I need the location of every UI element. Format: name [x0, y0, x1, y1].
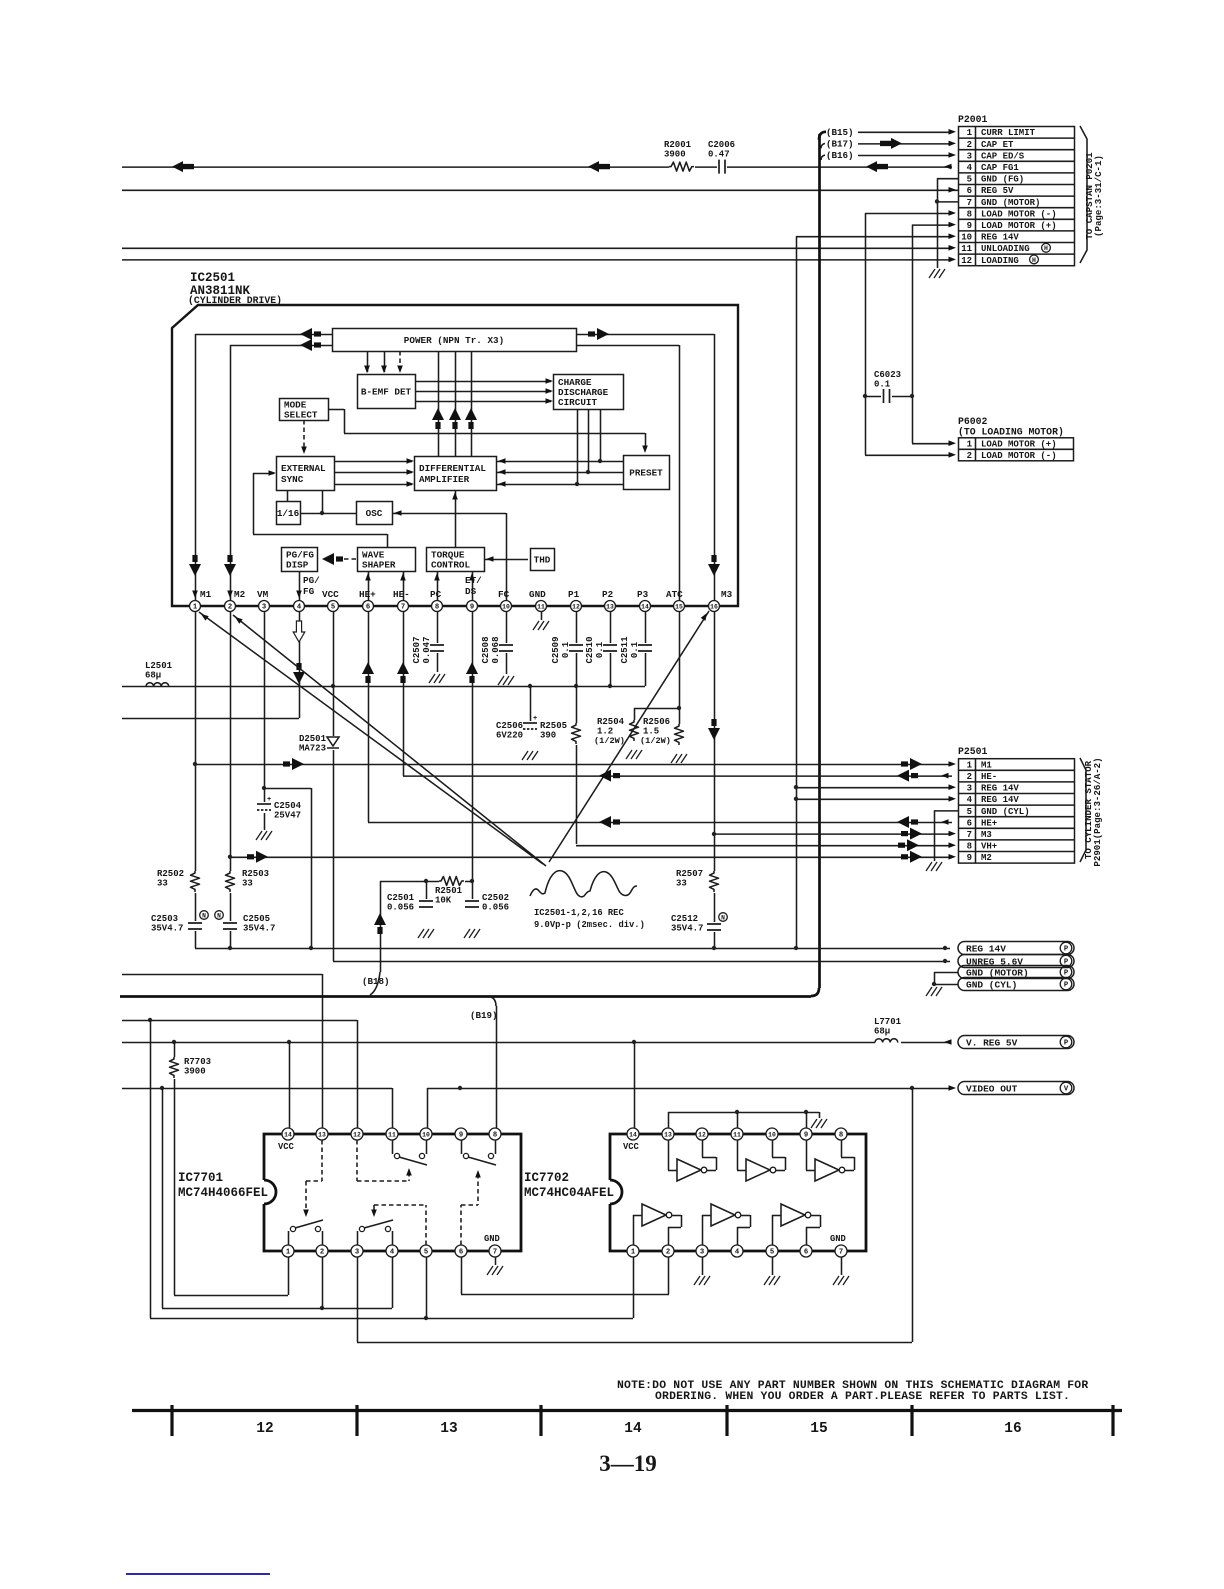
svg-text:LOAD MOTOR (+): LOAD MOTOR (+) — [981, 221, 1057, 231]
svg-text:7: 7 — [967, 830, 972, 840]
svg-text:P: P — [1064, 946, 1069, 954]
svg-text:CAP ET: CAP ET — [981, 140, 1014, 150]
svg-text:IC2501: IC2501 — [190, 271, 235, 285]
svg-text:6: 6 — [804, 1248, 808, 1256]
svg-text:3: 3 — [967, 151, 972, 161]
svg-text:11: 11 — [733, 1131, 741, 1138]
svg-text:VCC: VCC — [278, 1142, 295, 1152]
svg-text:SHAPER: SHAPER — [362, 559, 396, 570]
svg-text:1: 1 — [631, 1248, 636, 1256]
svg-text:P: P — [1064, 982, 1069, 990]
svg-text:(CYLINDER DRIVE): (CYLINDER DRIVE) — [188, 295, 282, 306]
svg-text:(1/2W): (1/2W) — [640, 736, 671, 746]
svg-text:R2505: R2505 — [540, 721, 567, 731]
svg-text:4: 4 — [967, 163, 973, 173]
svg-text:GND (CYL): GND (CYL) — [981, 807, 1030, 817]
svg-text:6: 6 — [967, 186, 972, 196]
svg-text:FC: FC — [498, 589, 510, 600]
svg-text:15: 15 — [675, 603, 683, 610]
svg-text:C2507: C2507 — [412, 636, 422, 663]
svg-text:R2504: R2504 — [597, 717, 625, 727]
svg-text:9: 9 — [459, 1131, 463, 1139]
svg-text:7: 7 — [839, 1248, 843, 1256]
svg-text:5: 5 — [424, 1248, 428, 1256]
svg-text:3900: 3900 — [184, 1067, 206, 1077]
svg-text:GND: GND — [830, 1234, 846, 1244]
svg-text:FG: FG — [303, 586, 315, 597]
svg-text:8: 8 — [967, 209, 972, 219]
svg-text:3900: 3900 — [664, 150, 686, 160]
svg-text:(B17): (B17) — [826, 139, 854, 150]
svg-text:8: 8 — [839, 1131, 843, 1139]
svg-text:ORDERING. WHEN YOU ORDER A PAR: ORDERING. WHEN YOU ORDER A PART.PLEASE R… — [655, 1391, 1070, 1403]
svg-text:13: 13 — [318, 1131, 326, 1138]
svg-text:35V4.7: 35V4.7 — [243, 924, 275, 934]
svg-text:SYNC: SYNC — [281, 474, 304, 485]
svg-text:V. REG 5V: V. REG 5V — [966, 1037, 1018, 1048]
svg-text:7: 7 — [493, 1248, 497, 1256]
svg-text:8: 8 — [493, 1131, 497, 1139]
svg-text:0.056: 0.056 — [482, 903, 509, 913]
svg-text:M3: M3 — [721, 589, 733, 600]
svg-text:R7703: R7703 — [184, 1057, 211, 1067]
svg-text:6: 6 — [967, 818, 972, 828]
svg-text:0.1: 0.1 — [874, 380, 891, 390]
svg-text:P2: P2 — [602, 589, 614, 600]
svg-text:3—19: 3—19 — [599, 1451, 657, 1476]
svg-text:P: P — [1064, 1040, 1069, 1048]
svg-text:12: 12 — [698, 1131, 706, 1138]
svg-text:VIDEO OUT: VIDEO OUT — [966, 1083, 1018, 1094]
svg-text:10: 10 — [961, 233, 972, 243]
svg-text:12: 12 — [256, 1421, 273, 1437]
svg-text:L7701: L7701 — [874, 1017, 902, 1027]
svg-text:33: 33 — [676, 879, 687, 889]
svg-text:390: 390 — [540, 731, 556, 741]
svg-text:THD: THD — [534, 554, 551, 565]
svg-text:35V4.7: 35V4.7 — [151, 924, 183, 934]
svg-text:1/16: 1/16 — [277, 508, 300, 519]
svg-text:12: 12 — [572, 603, 580, 610]
svg-text:UNLOADING: UNLOADING — [981, 244, 1030, 254]
svg-text:1: 1 — [193, 603, 198, 611]
svg-text:5: 5 — [331, 603, 335, 611]
svg-text:4: 4 — [967, 795, 973, 805]
svg-text:0.047: 0.047 — [422, 636, 432, 663]
svg-text:9: 9 — [967, 221, 972, 231]
svg-text:7: 7 — [401, 603, 405, 611]
svg-text:M1: M1 — [200, 589, 212, 600]
svg-text:14: 14 — [641, 603, 649, 610]
svg-text:1.2: 1.2 — [597, 727, 613, 737]
svg-text:REG 14V: REG 14V — [981, 784, 1019, 794]
svg-text:C2504: C2504 — [274, 801, 302, 811]
svg-text:(1/2W): (1/2W) — [594, 736, 625, 746]
svg-text:CAP ED/S: CAP ED/S — [981, 151, 1025, 161]
svg-text:6: 6 — [366, 603, 370, 611]
svg-text:C2511: C2511 — [620, 636, 630, 664]
svg-text:1: 1 — [967, 760, 973, 770]
svg-text:9.0Vp-p (2msec. div.): 9.0Vp-p (2msec. div.) — [534, 920, 645, 930]
svg-text:DIFFERENTIAL: DIFFERENTIAL — [419, 463, 486, 474]
svg-text:2: 2 — [967, 772, 972, 782]
svg-text:9: 9 — [470, 603, 474, 611]
svg-text:C6023: C6023 — [874, 370, 901, 380]
svg-text:VCC: VCC — [322, 589, 339, 600]
svg-text:H: H — [1044, 245, 1048, 252]
svg-text:9: 9 — [967, 853, 972, 863]
svg-text:CONTROL: CONTROL — [431, 559, 470, 570]
svg-text:10: 10 — [768, 1131, 776, 1138]
svg-text:2: 2 — [967, 451, 972, 461]
svg-text:P2901(Page:3-26/A-2): P2901(Page:3-26/A-2) — [1092, 757, 1103, 866]
svg-text:(B19): (B19) — [470, 1010, 498, 1021]
svg-text:VCC: VCC — [623, 1142, 640, 1152]
svg-text:10: 10 — [422, 1131, 430, 1138]
svg-text:8: 8 — [967, 842, 972, 852]
svg-text:P2501: P2501 — [958, 746, 988, 757]
svg-text:4: 4 — [735, 1248, 740, 1256]
svg-text:IC2501-1,2,16 REC: IC2501-1,2,16 REC — [534, 908, 624, 918]
svg-text:0.056: 0.056 — [387, 903, 414, 913]
svg-text:8: 8 — [435, 603, 439, 611]
svg-text:EXTERNAL: EXTERNAL — [281, 463, 326, 474]
svg-text:CIRCUIT: CIRCUIT — [558, 397, 597, 408]
svg-text:CURR LIMIT: CURR LIMIT — [981, 128, 1036, 138]
svg-text:DS: DS — [465, 586, 477, 597]
svg-text:GND: GND — [529, 589, 546, 600]
svg-text:6V220: 6V220 — [496, 731, 523, 741]
svg-text:PRESET: PRESET — [629, 467, 663, 478]
svg-text:68μ: 68μ — [145, 671, 161, 681]
svg-text:ET/: ET/ — [465, 575, 482, 586]
svg-text:GND (CYL): GND (CYL) — [966, 979, 1017, 990]
svg-text:13: 13 — [440, 1421, 457, 1437]
svg-text:P3: P3 — [637, 589, 649, 600]
svg-text:16: 16 — [710, 603, 718, 610]
svg-text:PG/: PG/ — [303, 575, 320, 586]
svg-text:16: 16 — [1004, 1421, 1021, 1437]
svg-text:3: 3 — [700, 1248, 704, 1256]
svg-text:(B18): (B18) — [362, 976, 390, 987]
svg-text:LOAD MOTOR (-): LOAD MOTOR (-) — [981, 209, 1057, 219]
svg-text:5: 5 — [770, 1248, 774, 1256]
svg-text:12: 12 — [961, 256, 972, 266]
svg-text:AMPLIFIER: AMPLIFIER — [419, 474, 470, 485]
svg-text:0.47: 0.47 — [708, 150, 730, 160]
svg-text:V: V — [1064, 1086, 1069, 1094]
svg-text:0.1: 0.1 — [561, 641, 571, 658]
svg-text:1: 1 — [286, 1248, 291, 1256]
svg-text:C2512: C2512 — [671, 914, 698, 924]
svg-text:M1: M1 — [981, 760, 992, 770]
svg-text:CAP FG1: CAP FG1 — [981, 163, 1019, 173]
svg-text:REG 14V: REG 14V — [966, 943, 1006, 954]
svg-text:DISP: DISP — [286, 559, 309, 570]
svg-text:2: 2 — [666, 1248, 670, 1256]
svg-text:33: 33 — [242, 879, 253, 889]
svg-text:HE-: HE- — [393, 589, 410, 600]
svg-text:VM: VM — [257, 589, 269, 600]
svg-text:1: 1 — [967, 439, 973, 449]
svg-text:N: N — [217, 912, 221, 919]
svg-text:GND (MOTOR): GND (MOTOR) — [981, 198, 1040, 208]
svg-text:N: N — [721, 914, 725, 921]
svg-text:11: 11 — [388, 1131, 396, 1138]
svg-text:68μ: 68μ — [874, 1027, 890, 1037]
svg-text:MC74H4066FEL: MC74H4066FEL — [178, 1186, 268, 1200]
svg-text:C2506: C2506 — [496, 721, 523, 731]
svg-text:R2501: R2501 — [435, 886, 463, 896]
svg-text:10: 10 — [502, 603, 510, 610]
svg-text:2: 2 — [228, 603, 232, 611]
svg-text:M3: M3 — [981, 830, 992, 840]
svg-text:9: 9 — [804, 1131, 808, 1139]
svg-text:GND: GND — [484, 1234, 500, 1244]
svg-text:C2501: C2501 — [387, 893, 415, 903]
svg-text:R2502: R2502 — [157, 869, 184, 879]
svg-text:(B16): (B16) — [826, 150, 854, 161]
svg-text:C2502: C2502 — [482, 893, 509, 903]
svg-text:N: N — [202, 912, 206, 919]
svg-text:13: 13 — [664, 1131, 672, 1138]
svg-text:HE+: HE+ — [981, 818, 997, 828]
svg-text:5: 5 — [967, 175, 972, 185]
svg-text:MC74HC04AFEL: MC74HC04AFEL — [524, 1186, 614, 1200]
svg-text:3: 3 — [967, 784, 972, 794]
svg-text:IC7702: IC7702 — [524, 1171, 569, 1185]
svg-text:7: 7 — [967, 198, 972, 208]
svg-text:R2001: R2001 — [664, 140, 692, 150]
svg-text:P: P — [1064, 970, 1069, 978]
svg-text:P1: P1 — [568, 589, 580, 600]
svg-text:C2508: C2508 — [481, 636, 491, 663]
svg-text:(TO LOADING MOTOR): (TO LOADING MOTOR) — [958, 427, 1064, 438]
svg-text:14: 14 — [284, 1131, 292, 1138]
svg-text:12: 12 — [353, 1131, 361, 1138]
svg-text:P2001: P2001 — [958, 114, 988, 125]
svg-text:5: 5 — [967, 807, 972, 817]
svg-text:1.5: 1.5 — [643, 727, 659, 737]
svg-text:(Page:3-31/C-1): (Page:3-31/C-1) — [1093, 155, 1104, 237]
svg-text:GND (FG): GND (FG) — [981, 175, 1024, 185]
svg-text:1: 1 — [967, 128, 973, 138]
svg-text:+: + — [533, 715, 537, 723]
svg-text:11: 11 — [961, 244, 972, 254]
svg-text:C2510: C2510 — [585, 636, 595, 663]
svg-text:R2506: R2506 — [643, 717, 670, 727]
svg-text:2: 2 — [320, 1248, 324, 1256]
svg-text:HE+: HE+ — [359, 589, 376, 600]
svg-text:M2: M2 — [234, 589, 246, 600]
svg-text:C2503: C2503 — [151, 914, 178, 924]
svg-text:C2505: C2505 — [243, 914, 270, 924]
svg-text:SELECT: SELECT — [284, 409, 318, 420]
svg-text:H: H — [1032, 257, 1036, 264]
svg-text:LOAD MOTOR (-): LOAD MOTOR (-) — [981, 451, 1057, 461]
svg-text:D2501: D2501 — [299, 734, 327, 744]
svg-text:L2501: L2501 — [145, 661, 173, 671]
svg-text:REG 5V: REG 5V — [981, 186, 1014, 196]
svg-text:14: 14 — [629, 1131, 637, 1138]
svg-text:4: 4 — [390, 1248, 395, 1256]
svg-text:35V4.7: 35V4.7 — [671, 924, 703, 934]
svg-text:6: 6 — [459, 1248, 463, 1256]
svg-text:10K: 10K — [435, 896, 452, 906]
svg-text:0.1: 0.1 — [630, 641, 640, 658]
svg-text:C2509: C2509 — [551, 636, 561, 663]
svg-text:ATC: ATC — [666, 589, 683, 600]
svg-text:B-EMF DET: B-EMF DET — [361, 386, 412, 397]
svg-text:3: 3 — [355, 1248, 359, 1256]
svg-text:C2006: C2006 — [708, 140, 735, 150]
svg-text:13: 13 — [606, 603, 614, 610]
svg-text:P6002: P6002 — [958, 416, 988, 427]
svg-text:3: 3 — [262, 603, 266, 611]
svg-text:R2503: R2503 — [242, 869, 269, 879]
svg-text:(B15): (B15) — [826, 127, 854, 138]
svg-text:14: 14 — [624, 1421, 642, 1437]
svg-text:0.1: 0.1 — [595, 641, 605, 658]
svg-text:POWER (NPN Tr. X3): POWER (NPN Tr. X3) — [404, 335, 504, 346]
svg-text:4: 4 — [297, 603, 302, 611]
svg-text:LOAD MOTOR (+): LOAD MOTOR (+) — [981, 439, 1057, 449]
svg-text:+: + — [267, 796, 271, 804]
svg-text:11: 11 — [537, 603, 545, 610]
svg-text:IC7701: IC7701 — [178, 1171, 223, 1185]
svg-text:OSC: OSC — [366, 508, 383, 519]
svg-text:PC: PC — [430, 589, 442, 600]
svg-text:REG 14V: REG 14V — [981, 233, 1019, 243]
svg-text:MA723: MA723 — [299, 744, 326, 754]
svg-text:M2: M2 — [981, 853, 992, 863]
svg-text:15: 15 — [810, 1421, 827, 1437]
svg-text:VH+: VH+ — [981, 842, 997, 852]
svg-text:33: 33 — [157, 879, 168, 889]
svg-text:R2507: R2507 — [676, 869, 703, 879]
svg-text:REG 14V: REG 14V — [981, 795, 1019, 805]
svg-text:25V47: 25V47 — [274, 811, 301, 821]
svg-text:2: 2 — [967, 140, 972, 150]
svg-text:0.068: 0.068 — [491, 636, 501, 663]
svg-text:LOADING: LOADING — [981, 256, 1019, 266]
svg-text:HE-: HE- — [981, 772, 997, 782]
